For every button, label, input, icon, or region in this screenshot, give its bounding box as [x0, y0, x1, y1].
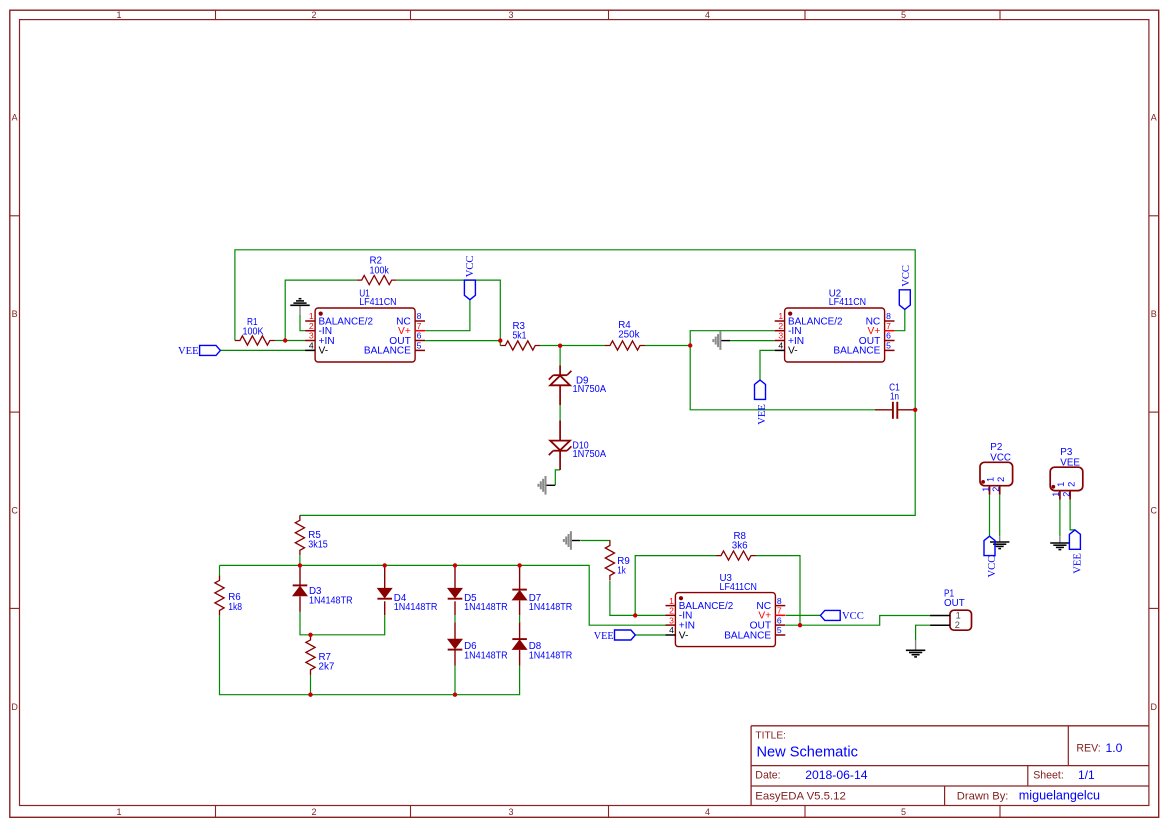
- svg-text:1: 1: [981, 487, 991, 492]
- svg-text:4: 4: [705, 10, 710, 20]
- svg-text:1.0: 1.0: [1106, 741, 1123, 755]
- svg-text:VCC: VCC: [901, 265, 912, 287]
- connector P1 OUT: [930, 588, 971, 630]
- svg-text:5: 5: [901, 10, 906, 20]
- svg-text:4: 4: [778, 341, 783, 351]
- svg-text:New Schematic: New Schematic: [757, 745, 858, 761]
- svg-text:2: 2: [778, 321, 783, 331]
- wire diode bus: [220, 565, 666, 625]
- svg-text:8: 8: [886, 311, 891, 321]
- svg-text:B: B: [1151, 309, 1157, 319]
- netflag VCC (U3 pin 7): [820, 610, 863, 622]
- wire: [397, 280, 501, 345]
- op-amp U1 LF411CN: [305, 288, 425, 362]
- ground (R9 / U3): [564, 531, 581, 550]
- svg-text:BALANCE: BALANCE: [364, 346, 411, 357]
- node junction (384.7,565.4): [383, 563, 387, 567]
- wire: [220, 349, 315, 351]
- netflag VEE (P3 pin 2): [1069, 530, 1083, 574]
- wire: [645, 345, 690, 347]
- svg-text:2018-06-14: 2018-06-14: [805, 768, 868, 782]
- svg-text:VEE: VEE: [178, 346, 199, 357]
- ground (U1 pin 2): [290, 299, 309, 315]
- resistor R6: [215, 575, 243, 615]
- resistor R1: [235, 317, 275, 345]
- svg-text:VEE: VEE: [1060, 457, 1080, 468]
- svg-text:Drawn By:: Drawn By:: [957, 790, 1009, 802]
- svg-text:5: 5: [417, 341, 422, 351]
- node junction (310.5,634.8): [308, 633, 312, 637]
- svg-text:A: A: [12, 113, 18, 123]
- wire: [425, 300, 470, 331]
- node junction (455.0,565.4): [453, 563, 457, 567]
- resistor R8: [716, 531, 756, 560]
- svg-text:2: 2: [955, 620, 960, 630]
- svg-text:1k: 1k: [617, 566, 626, 577]
- svg-text:B: B: [12, 309, 18, 319]
- ground (P3 pin 1): [1050, 536, 1069, 549]
- svg-text:3: 3: [669, 615, 674, 625]
- svg-text:100K: 100K: [243, 326, 264, 337]
- svg-text:D: D: [1151, 702, 1158, 712]
- svg-text:VEE: VEE: [594, 631, 614, 642]
- svg-text:6: 6: [886, 331, 891, 341]
- column ticks top/bottom: [215, 10, 217, 19]
- svg-text:V-: V-: [319, 346, 329, 357]
- svg-text:1: 1: [956, 610, 961, 620]
- svg-text:250k: 250k: [618, 330, 639, 341]
- zener diode D10 1N750A: [549, 420, 607, 470]
- wire: [285, 280, 357, 340]
- svg-text:100k: 100k: [370, 265, 389, 276]
- zener diode D9 1N750A: [549, 365, 607, 405]
- svg-text:3: 3: [508, 10, 513, 20]
- connector P2 VCC: [980, 442, 1013, 495]
- svg-text:1N4148TR: 1N4148TR: [464, 602, 508, 613]
- wire: [916, 625, 931, 640]
- netflag VEE (U3 pin 4): [594, 630, 636, 642]
- svg-text:2: 2: [669, 606, 674, 616]
- title block: [751, 725, 1149, 727]
- resistor R4: [605, 320, 645, 350]
- svg-text:VCC: VCC: [465, 256, 476, 278]
- netflag VEE (left, to U1 pin 4): [178, 345, 220, 357]
- wire: [1059, 500, 1061, 537]
- svg-text:8: 8: [417, 311, 422, 321]
- wire: [895, 309, 905, 330]
- node junction (310.5,694.7): [308, 693, 312, 697]
- wire: [540, 345, 605, 347]
- wire top feedback loop: [235, 250, 915, 516]
- ground (P1 pin 2): [906, 640, 925, 657]
- diode D8 1N4148TR: [512, 622, 572, 665]
- wire: [756, 556, 800, 626]
- svg-text:REV:: REV:: [1076, 743, 1100, 755]
- diode D7 1N4148TR: [512, 565, 572, 615]
- svg-text:1: 1: [669, 596, 674, 606]
- svg-text:7: 7: [886, 321, 891, 331]
- svg-text:1: 1: [309, 311, 314, 321]
- netflag VCC (P2 pin 1): [984, 536, 998, 577]
- svg-text:P2: P2: [990, 442, 1002, 453]
- wire: [786, 616, 931, 626]
- svg-text:1/1: 1/1: [1078, 768, 1095, 782]
- netflag VCC (above U2, to pin 7): [899, 265, 912, 309]
- op-amp U3 LF411CN: [666, 573, 786, 647]
- svg-text:VCC: VCC: [842, 611, 864, 622]
- ground (below D10): [538, 476, 555, 495]
- svg-text:1N4148TR: 1N4148TR: [309, 595, 353, 606]
- svg-text:2: 2: [991, 487, 1001, 492]
- svg-text:5: 5: [886, 341, 891, 351]
- svg-text:BALANCE: BALANCE: [724, 630, 771, 641]
- svg-text:3: 3: [309, 331, 314, 341]
- wire: [454, 615, 456, 622]
- svg-text:2: 2: [1061, 492, 1071, 497]
- node junction (519.6,565.4): [517, 563, 521, 567]
- wire: [300, 612, 385, 635]
- row ticks left/right: [10, 215, 20, 217]
- svg-text:1N750A: 1N750A: [573, 449, 607, 460]
- svg-text:LF411CN: LF411CN: [359, 297, 396, 308]
- svg-text:2: 2: [995, 477, 1006, 482]
- ground (U2 pin 3): [713, 331, 730, 350]
- svg-text:1N4148TR: 1N4148TR: [464, 650, 508, 661]
- svg-text:P3: P3: [1060, 447, 1073, 458]
- resistor R3: [500, 321, 540, 350]
- svg-text:4: 4: [669, 625, 674, 635]
- svg-text:EasyEDA V5.5.12: EasyEDA V5.5.12: [755, 790, 846, 802]
- svg-text:TITLE:: TITLE:: [755, 731, 786, 742]
- node junction (690.2,345.5): [688, 343, 692, 347]
- svg-text:A: A: [1151, 113, 1157, 123]
- wire: [559, 405, 561, 420]
- node junction (500.3,340.6): [498, 338, 502, 342]
- svg-text:4: 4: [309, 341, 314, 351]
- diode D6 1N4148TR: [448, 622, 508, 665]
- svg-text:5: 5: [777, 625, 782, 635]
- svg-text:1N750A: 1N750A: [573, 384, 607, 395]
- ground (P2 pin 2): [990, 536, 1009, 548]
- wire: [519, 615, 521, 622]
- wire: [275, 340, 306, 342]
- netflag VEE (below U2, to pin 4): [755, 380, 769, 425]
- wire: [220, 615, 520, 694]
- op-amp U2 LF411CN: [775, 288, 895, 362]
- node junction (285.2,340.5): [283, 338, 287, 342]
- resistor R9: [605, 541, 629, 581]
- wire: [555, 470, 560, 485]
- node junction (299.9,565.4): [298, 563, 302, 567]
- wire: [999, 495, 1001, 537]
- svg-text:7: 7: [777, 606, 782, 616]
- svg-text:OUT: OUT: [944, 598, 965, 609]
- svg-text:2: 2: [311, 807, 316, 817]
- netflag VCC (above U1, to pin 7): [464, 256, 475, 300]
- svg-text:3: 3: [508, 807, 513, 817]
- wire: [581, 540, 610, 543]
- connector P3 VEE: [1050, 447, 1083, 500]
- svg-text:Date:: Date:: [755, 770, 780, 782]
- svg-text:LF411CN: LF411CN: [829, 297, 866, 308]
- svg-text:1N4148TR: 1N4148TR: [529, 602, 573, 613]
- wire: [989, 495, 991, 537]
- wire: [219, 565, 221, 575]
- wire: [786, 614, 821, 616]
- svg-text:5k1: 5k1: [513, 330, 527, 341]
- wire: [1070, 500, 1075, 530]
- node junction (560.1,345.7): [558, 344, 562, 348]
- svg-text:1: 1: [116, 807, 121, 817]
- svg-text:VCC: VCC: [987, 556, 998, 578]
- svg-text:6: 6: [417, 331, 422, 341]
- svg-text:1k8: 1k8: [228, 602, 242, 613]
- node junction (455.0,694.7): [453, 693, 457, 697]
- node junction (800.0,625.2): [798, 623, 802, 627]
- svg-text:3: 3: [778, 331, 783, 341]
- svg-text:8: 8: [777, 596, 782, 606]
- svg-text:2k7: 2k7: [319, 661, 335, 672]
- svg-text:7: 7: [417, 321, 422, 331]
- wire: [299, 555, 301, 565]
- node junction (635.2,615.4): [633, 613, 637, 617]
- node junction (915.2,409.8): [913, 408, 917, 412]
- svg-text:3k6: 3k6: [732, 540, 748, 551]
- svg-text:4: 4: [705, 807, 710, 817]
- svg-text:6: 6: [777, 615, 782, 625]
- wire: [559, 346, 561, 366]
- svg-text:1: 1: [116, 10, 121, 20]
- svg-text:Sheet:: Sheet:: [1033, 770, 1064, 782]
- svg-text:LF411CN: LF411CN: [720, 582, 757, 593]
- wire: [425, 340, 500, 342]
- svg-text:3k15: 3k15: [308, 540, 328, 551]
- svg-text:VEE: VEE: [757, 404, 768, 425]
- wire: [690, 331, 876, 410]
- diode D5 1N4148TR: [448, 565, 508, 615]
- svg-text:BALANCE: BALANCE: [833, 346, 880, 357]
- resistor R2: [357, 256, 397, 285]
- wire: [730, 340, 775, 342]
- svg-text:2: 2: [311, 10, 316, 20]
- svg-text:1: 1: [778, 311, 783, 321]
- svg-text:1N4148TR: 1N4148TR: [529, 650, 573, 661]
- svg-text:2: 2: [309, 321, 314, 331]
- resistor R5: [295, 515, 328, 555]
- svg-text:V-: V-: [788, 346, 798, 357]
- wire: [635, 634, 665, 636]
- svg-text:D: D: [11, 702, 18, 712]
- wire: [635, 556, 716, 616]
- diode D4 1N4148TR: [377, 565, 437, 615]
- svg-text:5: 5: [901, 807, 906, 817]
- svg-text:V-: V-: [679, 630, 689, 641]
- svg-text:VEE: VEE: [1073, 553, 1084, 574]
- diode D3 1N4148TR: [293, 565, 353, 612]
- wire: [610, 581, 635, 615]
- wire: [760, 350, 775, 380]
- svg-text:miguelangelcu: miguelangelcu: [1019, 788, 1100, 802]
- svg-text:1n: 1n: [890, 392, 899, 403]
- svg-text:2: 2: [1065, 482, 1076, 487]
- capacitor C1: [875, 382, 915, 419]
- resistor R7: [306, 635, 334, 675]
- wire: [300, 315, 305, 331]
- svg-text:1: 1: [1051, 492, 1061, 497]
- wire: [310, 675, 312, 695]
- wire: [635, 614, 665, 616]
- svg-text:C: C: [11, 506, 18, 516]
- svg-text:C: C: [1151, 506, 1158, 516]
- svg-text:VCC: VCC: [990, 452, 1011, 463]
- wire: [454, 666, 456, 695]
- svg-text:1N4148TR: 1N4148TR: [394, 602, 438, 613]
